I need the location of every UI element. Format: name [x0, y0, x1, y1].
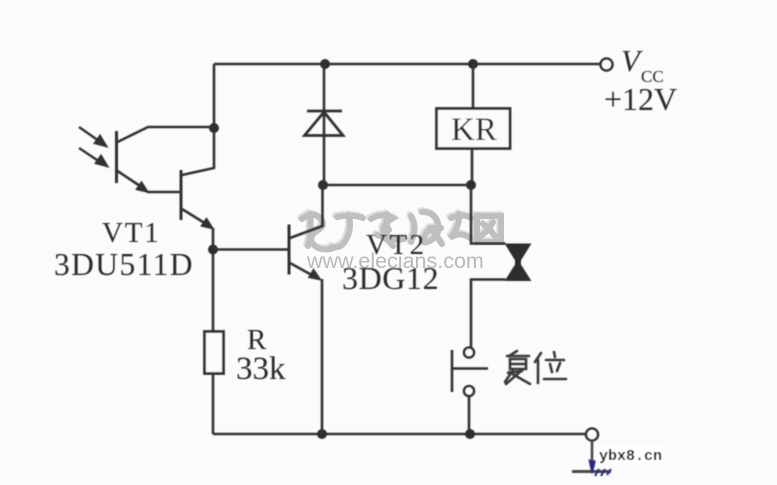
VT2 collector	[290, 185, 323, 238]
pushbutton SB (reset)	[452, 348, 488, 397]
VT1 stage-2 collector	[182, 128, 214, 175]
wire: mid horizontal	[323, 184, 471, 187]
wire: button to bottom rail	[468, 396, 471, 434]
wire: top-left vertical to VT1 collector	[213, 64, 216, 128]
phototransistor VT1 light arrows	[79, 127, 107, 166]
wire: junction down and jog to contact	[471, 185, 506, 244]
resistor R bottom lead	[212, 374, 215, 435]
svg-text:V: V	[621, 43, 643, 78]
node: VT1 collector junction	[209, 123, 219, 133]
VT2 emitter with arrow	[290, 263, 318, 279]
VT1 stage-1 collector	[118, 127, 215, 142]
label: 复位 (reset)	[505, 351, 566, 384]
resistor R body	[205, 332, 224, 374]
VT1 stage-2 base bar	[180, 170, 183, 220]
relay coil KR box	[437, 109, 511, 149]
svg-text:VT1: VT1	[102, 217, 161, 249]
VT1 stage-1 emitter with arrow	[118, 171, 147, 190]
wire: stage-2 emitter down to node	[212, 228, 215, 250]
svg-text:VT2: VT2	[366, 229, 427, 261]
terminal: Vcc open circle	[601, 59, 613, 71]
node: VT2 emitter / rail	[317, 429, 327, 439]
relay contact (solid bowtie)	[506, 244, 531, 281]
watermark calligraphy 电子发烧友网 (gray)	[301, 211, 500, 248]
node: button / rail	[465, 429, 475, 439]
VT1 stage-2 emitter with arrow	[182, 209, 211, 227]
VT1 stage-1 base bar	[115, 131, 118, 183]
wire: VT2 base line	[213, 248, 288, 251]
wire: relay bottom lead	[471, 149, 474, 186]
node: VT1 emitter junction	[208, 245, 218, 255]
wire: ground lead	[591, 441, 594, 468]
ground symbol	[572, 470, 611, 473]
wire: stage-1 emitter to stage-2 base	[147, 191, 181, 194]
svg-text:3DG12: 3DG12	[342, 260, 439, 296]
wire: diode branch (continuous through symbol)	[323, 64, 326, 185]
node: top rail / relay branch	[468, 59, 478, 69]
ground hatches (blue)	[589, 460, 611, 476]
diode VD (flyback, cathode up)	[305, 111, 344, 136]
node: diode/VT2 collector junction	[318, 180, 328, 190]
svg-text:ybx8.cn: ybx8.cn	[599, 448, 662, 465]
wire: bottom rail	[213, 433, 586, 436]
svg-text:+12V: +12V	[604, 81, 677, 117]
svg-text:33k: 33k	[236, 351, 286, 387]
resistor R top lead	[212, 250, 215, 331]
transistor VT2 base bar	[288, 225, 291, 275]
terminal: ground open circle	[586, 429, 598, 441]
svg-text:KR: KR	[451, 112, 497, 148]
watermark: ybx8.cn	[596, 446, 663, 463]
node: relay bottom junction	[466, 180, 476, 190]
wire: top rail	[214, 63, 600, 66]
wire: VT2 emitter down to rail	[321, 279, 324, 434]
node: top rail / diode branch	[320, 59, 330, 69]
wire: relay top lead	[472, 64, 475, 108]
wire: contact bottom jog and down to button	[471, 280, 506, 348]
svg-text:3DU511D: 3DU511D	[54, 247, 194, 282]
